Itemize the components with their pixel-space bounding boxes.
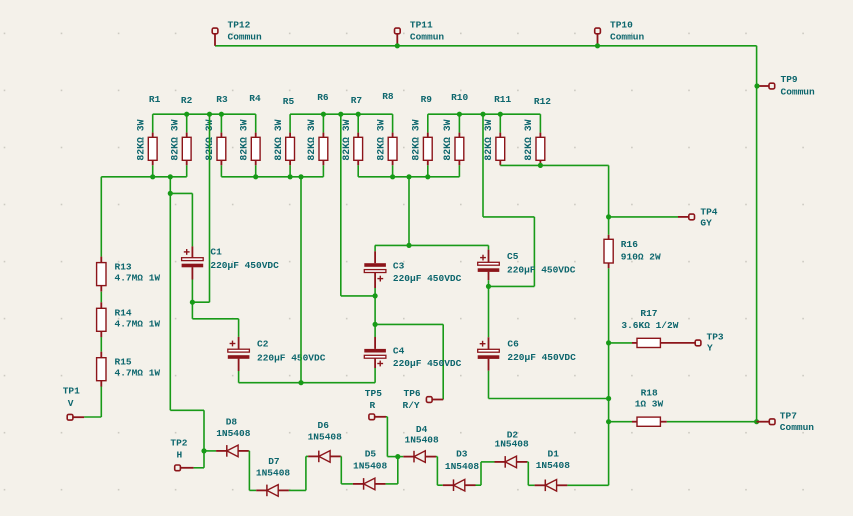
svg-text:1N5408: 1N5408: [216, 428, 251, 439]
wire: [248, 450, 251, 452]
junction: [321, 112, 326, 117]
svg-text:1N5408: 1N5408: [495, 438, 530, 449]
wire R18 to TP7 node: [667, 421, 757, 423]
wire C6 bottom to rail: [489, 398, 609, 400]
svg-text:R1: R1: [149, 94, 161, 105]
svg-text:220µF 450VDC: 220µF 450VDC: [507, 352, 576, 363]
wire R15 to TP1: [100, 387, 102, 418]
svg-text:R18: R18: [641, 387, 658, 398]
svg-text:C6: C6: [507, 338, 519, 349]
pin C1 top: [191, 246, 193, 257]
wire: [488, 245, 490, 249]
junction: [373, 322, 378, 327]
svg-text:82KΩ 3W: 82KΩ 3W: [169, 119, 180, 160]
wire: [533, 217, 535, 287]
test point TP2: [170, 438, 193, 471]
svg-text:TP6: TP6: [404, 388, 421, 399]
wire tap to TP6: [375, 323, 443, 325]
junction: [406, 243, 411, 248]
svg-text:R15: R15: [115, 357, 132, 368]
wire down to TP4 node: [608, 165, 610, 217]
svg-text:1N5408: 1N5408: [353, 461, 388, 472]
wire: [238, 371, 240, 383]
junction: [219, 112, 224, 117]
svg-text:1N5408: 1N5408: [536, 460, 571, 471]
svg-text:D1: D1: [548, 448, 560, 459]
wire bottom bus R1-R2: [101, 176, 186, 178]
svg-text:TP2: TP2: [170, 438, 187, 449]
svg-text:82KΩ 3W: 82KΩ 3W: [411, 119, 422, 160]
wire D7 to D6: [305, 456, 307, 490]
resistor R18: [609, 387, 667, 426]
junction: [390, 174, 395, 179]
junction: [606, 396, 611, 401]
resistor R3: [204, 94, 228, 177]
svg-text:R13: R13: [115, 262, 132, 273]
wire: [249, 489, 256, 491]
junction: [168, 174, 173, 179]
pin C4 top: [374, 337, 376, 349]
wire: [483, 216, 534, 218]
capacitor C3: [364, 261, 461, 285]
wire tap R3-R6 bottom bus down: [300, 177, 302, 383]
svg-text:R11: R11: [494, 94, 511, 105]
svg-text:R/Y: R/Y: [403, 400, 420, 411]
wire: [567, 484, 608, 486]
svg-text:4.7MΩ 1W: 4.7MΩ 1W: [115, 368, 161, 379]
svg-text:220µF 450VDC: 220µF 450VDC: [210, 260, 279, 271]
wire fork down from bottom bus: [169, 177, 171, 410]
pin C4 bottom: [374, 358, 376, 368]
wire D6 to D5: [340, 456, 342, 484]
diode D1: [535, 448, 571, 491]
resistor R9: [411, 94, 433, 177]
junction: [253, 174, 258, 179]
junction: [395, 43, 400, 48]
svg-text:R: R: [370, 400, 376, 411]
svg-text:R5: R5: [283, 96, 295, 107]
test point TP12: [212, 20, 262, 46]
wire: [341, 295, 375, 297]
capacitor C4: [364, 345, 461, 369]
junction: [356, 112, 361, 117]
svg-text:R6: R6: [317, 92, 329, 103]
svg-text:D7: D7: [268, 456, 280, 467]
pin C5 top: [488, 250, 490, 263]
wire: [386, 483, 398, 485]
wire: [340, 455, 343, 457]
svg-text:C1: C1: [210, 247, 222, 258]
pin C3 bottom: [374, 273, 376, 288]
svg-text:1N5408: 1N5408: [405, 435, 440, 446]
junction: [288, 174, 293, 179]
svg-text:220µF 450VDC: 220µF 450VDC: [507, 264, 576, 275]
wire tap R9-R12 top down: [482, 114, 484, 217]
svg-text:1Ω 3W: 1Ω 3W: [635, 398, 664, 409]
resistor R16: [604, 217, 661, 268]
svg-text:TP7: TP7: [780, 411, 797, 422]
svg-text:TP11: TP11: [410, 20, 433, 31]
svg-text:1N5408: 1N5408: [445, 461, 480, 472]
wire bottom bus R11-R12: [500, 164, 608, 166]
wire R16 to R17 node: [608, 268, 610, 343]
wire C1 top feed: [191, 193, 193, 246]
junction: [538, 163, 543, 168]
resistor R10: [442, 92, 468, 177]
junction: [168, 191, 173, 196]
wire top common bus: [215, 45, 757, 47]
test point TP6: [403, 388, 444, 411]
wire TP2 node to D8: [204, 450, 216, 452]
capacitor C6: [478, 338, 576, 363]
svg-text:82KΩ 3W: 82KΩ 3W: [135, 119, 146, 160]
wire: [192, 318, 238, 320]
diode D6: [308, 420, 343, 462]
wire: [527, 461, 528, 463]
wire: [238, 319, 240, 337]
svg-text:R10: R10: [451, 92, 468, 103]
svg-text:TP3: TP3: [707, 332, 724, 343]
wire left rail to R13: [100, 177, 102, 257]
wire tap R7-R10 bottom bus down: [408, 177, 410, 246]
svg-text:82KΩ 3W: 82KΩ 3W: [238, 119, 249, 160]
svg-text:C3: C3: [393, 261, 405, 272]
svg-text:TP5: TP5: [365, 388, 382, 399]
wire top bus segment R5-R8: [290, 113, 393, 115]
wire C5 bottom to C6 top: [488, 286, 490, 337]
svg-text:R9: R9: [421, 94, 433, 105]
wire right rail: [756, 46, 758, 422]
pin C3 top: [374, 251, 376, 263]
svg-text:C5: C5: [507, 251, 519, 262]
junction: [201, 448, 206, 453]
resistor R7: [341, 95, 363, 177]
wire C3 top to C5 top: [375, 244, 489, 246]
wire top bus segment R9-R12: [428, 113, 541, 115]
junction: [486, 284, 491, 289]
wire: [436, 456, 437, 458]
wire D3 to D2: [480, 462, 482, 485]
svg-text:D3: D3: [456, 449, 468, 460]
wire: [84, 416, 101, 418]
wire: [191, 280, 193, 303]
svg-text:910Ω 2W: 910Ω 2W: [621, 252, 661, 263]
svg-text:82KΩ 3W: 82KΩ 3W: [341, 119, 352, 160]
test point TP7: [757, 411, 815, 434]
junction: [606, 419, 611, 424]
wire rail down to D1: [608, 422, 610, 486]
resistor R12: [523, 96, 551, 166]
svg-text:220µF 450VDC: 220µF 450VDC: [393, 358, 462, 369]
capacitor C5: [478, 251, 576, 275]
junction: [595, 43, 600, 48]
svg-text:R14: R14: [115, 307, 132, 318]
svg-text:82KΩ 3W: 82KΩ 3W: [523, 119, 534, 160]
wire top bus segment R1-R4: [153, 113, 256, 115]
resistor R4: [238, 93, 261, 177]
wire tap R1-R4 top to C1 bottom: [209, 114, 211, 302]
wire: [100, 337, 102, 352]
wire TP5 down: [386, 417, 388, 457]
diode D3: [443, 449, 480, 491]
svg-text:Y: Y: [707, 343, 713, 354]
wire to C5 bottom: [489, 285, 535, 287]
wire: [374, 368, 376, 383]
wire bottom bus R7-R10: [358, 176, 459, 178]
wire: [374, 288, 376, 296]
pin C5 bottom: [488, 272, 490, 281]
svg-text:Commun: Commun: [410, 32, 445, 43]
wire to TP4: [609, 216, 678, 218]
test point TP10: [595, 20, 645, 46]
pin C6 bottom: [488, 359, 490, 371]
wire D8 to D7: [248, 451, 250, 491]
junction: [298, 380, 303, 385]
junction: [406, 174, 411, 179]
svg-text:GY: GY: [700, 217, 712, 228]
svg-text:D6: D6: [318, 420, 330, 431]
wire: [398, 456, 404, 458]
svg-text:Commun: Commun: [228, 32, 263, 43]
wire tap R5-R8 top to C3 bottom: [340, 114, 342, 296]
svg-text:Commun: Commun: [781, 87, 816, 98]
wire: [387, 456, 397, 458]
svg-text:R2: R2: [181, 95, 193, 106]
junction: [425, 174, 430, 179]
resistor R6: [306, 92, 329, 177]
diode D5: [353, 448, 388, 489]
diode D2: [495, 429, 530, 467]
wire: [170, 192, 192, 194]
wire C2 bottom to C4 bottom: [239, 382, 376, 384]
svg-text:H: H: [177, 450, 183, 461]
svg-text:R12: R12: [534, 96, 551, 107]
wire: [194, 467, 204, 469]
svg-text:82KΩ 3W: 82KΩ 3W: [375, 119, 386, 160]
diode D7: [256, 456, 291, 496]
wire: [437, 484, 442, 486]
resistor R1: [135, 94, 160, 177]
test point TP1: [63, 385, 84, 420]
svg-text:1N5408: 1N5408: [256, 467, 291, 478]
wire bottom bus R3-R6: [221, 176, 323, 178]
svg-text:4.7MΩ 1W: 4.7MΩ 1W: [115, 318, 161, 329]
pin C2 bottom: [238, 359, 240, 371]
svg-text:TP4: TP4: [700, 206, 717, 217]
junction: [373, 293, 378, 298]
junction: [457, 112, 462, 117]
svg-text:4.7MΩ 1W: 4.7MΩ 1W: [115, 273, 161, 284]
svg-text:TP10: TP10: [610, 20, 633, 31]
junction: [498, 112, 503, 117]
test point TP9: [757, 74, 815, 98]
svg-text:TP9: TP9: [781, 74, 798, 85]
wire: [374, 245, 376, 251]
diode D4: [403, 424, 439, 462]
wire: [488, 371, 490, 399]
svg-text:R4: R4: [249, 93, 261, 104]
svg-text:C2: C2: [257, 339, 269, 350]
svg-text:D4: D4: [416, 424, 428, 435]
junction: [395, 454, 400, 459]
svg-text:82KΩ 3W: 82KΩ 3W: [442, 119, 453, 160]
svg-text:R3: R3: [216, 94, 228, 105]
resistor R17: [609, 308, 695, 348]
wire mid-right rail: [608, 343, 610, 422]
junction: [606, 214, 611, 219]
resistor R2: [169, 95, 192, 177]
svg-text:220µF 450VDC: 220µF 450VDC: [257, 352, 326, 363]
wire: [170, 409, 204, 411]
junction: [207, 112, 212, 117]
pin C2 top: [238, 337, 240, 349]
svg-text:TP1: TP1: [63, 385, 80, 396]
junction: [298, 174, 303, 179]
junction: [184, 112, 189, 117]
svg-text:Commun: Commun: [780, 422, 815, 433]
capacitor C2: [228, 339, 326, 364]
svg-text:Commun: Commun: [610, 32, 645, 43]
svg-text:D5: D5: [365, 448, 377, 459]
junction: [190, 300, 195, 305]
svg-text:R8: R8: [382, 91, 394, 102]
wire: [192, 301, 209, 303]
svg-text:3.6KΩ 1/2W: 3.6KΩ 1/2W: [621, 320, 678, 331]
wire down to TP2 node: [203, 410, 205, 468]
svg-text:1N5408: 1N5408: [308, 432, 343, 443]
wire: [306, 455, 308, 457]
junction: [150, 174, 155, 179]
resistor R5: [273, 96, 295, 177]
svg-text:R7: R7: [351, 95, 363, 106]
test point TP11: [395, 20, 445, 46]
junction: [480, 112, 485, 117]
wire: [442, 324, 444, 399]
capacitor C1: [182, 247, 280, 271]
test point TP4: [678, 206, 718, 228]
wire D2 to D1: [527, 462, 529, 485]
wire: [488, 280, 490, 286]
wire C3 bottom to C4 top: [374, 296, 376, 325]
pin C6 top: [488, 337, 490, 349]
resistor R8: [375, 91, 397, 177]
resistor R15: [97, 352, 161, 387]
pin C1 bottom: [191, 267, 193, 279]
wire: [386, 416, 387, 418]
wire: [341, 483, 353, 485]
diode D8: [216, 417, 251, 457]
svg-text:82KΩ 3W: 82KΩ 3W: [483, 119, 494, 160]
svg-text:R17: R17: [640, 308, 657, 319]
wire D4 to D3: [436, 457, 438, 486]
wire: [476, 484, 482, 486]
junction: [754, 83, 759, 88]
test point TP3: [695, 332, 724, 354]
svg-text:R16: R16: [621, 239, 638, 250]
wire: [289, 489, 306, 491]
svg-text:C4: C4: [393, 345, 405, 356]
wire: [100, 292, 102, 303]
svg-text:220µF 450VDC: 220µF 450VDC: [393, 273, 462, 284]
svg-text:V: V: [68, 398, 74, 409]
wire: [374, 324, 376, 337]
junction: [606, 340, 611, 345]
svg-text:TP12: TP12: [228, 20, 251, 31]
resistor R14: [97, 302, 161, 337]
junction: [754, 419, 759, 424]
wire C1 bottom to C2 top: [191, 302, 193, 319]
wire: [481, 461, 495, 463]
resistor R11: [483, 94, 512, 166]
svg-text:82KΩ 3W: 82KΩ 3W: [273, 119, 284, 160]
svg-text:82KΩ 3W: 82KΩ 3W: [306, 119, 317, 160]
test point TP5: [365, 388, 386, 420]
svg-text:D8: D8: [226, 417, 238, 428]
wire: [397, 457, 399, 484]
wire: [607, 164, 610, 166]
resistor R13: [97, 257, 161, 292]
junction: [338, 112, 343, 117]
wire: [528, 484, 534, 486]
